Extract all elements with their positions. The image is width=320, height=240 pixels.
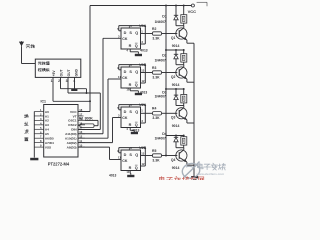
- svg-text:D1: D1: [162, 15, 167, 19]
- node rail top: [165, 5, 167, 7]
- IC1 left pin stub 3: [34, 119, 43, 121]
- VCC terminal: [191, 4, 194, 7]
- svg-text:D2: D2: [162, 54, 167, 58]
- wire VCC rail vertical: [89, 6, 91, 112]
- ground U2B: [127, 175, 134, 177]
- svg-text:1N4007: 1N4007: [155, 59, 166, 63]
- wire U2B feedback Qbar to D: [119, 147, 146, 149]
- wire top right corner artifact: [197, 1, 207, 3]
- IC1 left pin stub 9: [34, 146, 43, 148]
- IC1 left pin stub 4: [34, 124, 43, 126]
- U1A S pin stub: [128, 26, 130, 28]
- IC1 left pin stub 2: [34, 115, 43, 117]
- wire U2B R pin to ground: [129, 171, 131, 174]
- svg-text:3.3K: 3.3K: [152, 116, 160, 120]
- svg-text:R2: R2: [152, 27, 156, 31]
- wire DIN vertical: [99, 93, 101, 130]
- svg-text:A5: A5: [45, 132, 49, 136]
- ground U1A: [135, 54, 142, 56]
- svg-text:GND: GND: [75, 68, 79, 76]
- wire stage2 collector node: [176, 64, 184, 66]
- wire module pin2 OUT: [60, 77, 62, 88]
- svg-text:Q2: Q2: [171, 75, 176, 79]
- wire address common vertical: [33, 112, 35, 158]
- svg-text:CK: CK: [122, 37, 128, 41]
- wire R1 to OSC1 pin16: [94, 125, 98, 127]
- wire bus D0 pin13 to U1A CK: [78, 133, 103, 135]
- U1B S pin stub: [128, 65, 130, 67]
- transistor Q3: [176, 108, 187, 119]
- IC1 right pin stub 15: [78, 124, 85, 126]
- module label 控模块: [38, 68, 49, 71]
- wire top VCC horizontal: [90, 5, 191, 7]
- transistor Q1: [176, 28, 187, 39]
- IC1 right pin stub 12: [78, 137, 85, 139]
- diode D3: [175, 89, 177, 95]
- receiver module box: [35, 59, 81, 77]
- svg-text:A1: A1: [45, 114, 49, 118]
- IC1 right pin stub 10: [78, 146, 85, 148]
- IC1 left pin stub 8: [34, 142, 43, 144]
- U2A S pin stub: [128, 105, 130, 107]
- relay K3: [183, 89, 185, 95]
- svg-text:IC1: IC1: [41, 99, 47, 103]
- svg-text:2: 2: [58, 79, 60, 83]
- node stage1 relay top: [183, 5, 185, 7]
- svg-text:D: D: [124, 70, 127, 74]
- transistor Q2: [176, 67, 187, 78]
- IC1 right pin stub 13: [78, 133, 85, 135]
- svg-text:18: 18: [79, 108, 82, 112]
- IC1 right pin stub 16: [78, 119, 85, 121]
- svg-text:CK: CK: [122, 76, 128, 80]
- flip-flop U1A box: [121, 28, 141, 49]
- wire module pin1 +5V: [52, 77, 54, 101]
- svg-text:9014: 9014: [172, 166, 180, 170]
- svg-text:R5: R5: [152, 149, 156, 153]
- svg-text:R: R: [129, 44, 132, 48]
- svg-text:D4: D4: [162, 132, 167, 136]
- wire R1 to OSC2 pin15: [78, 124, 80, 126]
- wire left VCC distribution rail: [165, 6, 167, 136]
- svg-text:Q: Q: [135, 123, 138, 127]
- node stage1 diode top: [175, 5, 177, 7]
- wire antenna to module: [21, 46, 23, 63]
- wire stage2 top: [166, 49, 184, 51]
- node rail stage3: [165, 88, 167, 90]
- svg-text:S: S: [129, 153, 132, 157]
- svg-text:Q3: Q3: [171, 116, 176, 120]
- wire U2A feedback Qbar to D: [119, 104, 146, 106]
- svg-text:9014: 9014: [172, 124, 180, 128]
- svg-text:S: S: [129, 110, 132, 114]
- svg-text:4013: 4013: [140, 49, 148, 53]
- wire U2B Q output: [141, 155, 153, 157]
- watermark text 电子发烧友: [198, 163, 233, 170]
- svg-text:1N4007: 1N4007: [155, 94, 166, 98]
- IC1 right pin stub 17: [78, 115, 84, 117]
- svg-text:D: D: [124, 153, 127, 157]
- svg-text:A2: A2: [45, 119, 49, 123]
- label 地址设置: [24, 114, 28, 117]
- svg-text:R: R: [129, 83, 132, 87]
- svg-text:3.3K: 3.3K: [152, 36, 160, 40]
- IC1 right pin stub 14: [78, 128, 85, 130]
- svg-text:4013: 4013: [109, 174, 117, 178]
- svg-text:1N4007: 1N4007: [155, 137, 166, 141]
- IC1 left pin stub 7: [34, 137, 43, 139]
- relay K1: [183, 6, 185, 15]
- relay K2: [183, 50, 185, 54]
- ground rail symbol: [191, 176, 198, 178]
- IC1 left pin stub 1: [34, 111, 43, 113]
- svg-text:A6/D5: A6/D5: [45, 137, 54, 141]
- flip-flop U2A box: [121, 107, 141, 128]
- red caption bottom: [159, 176, 203, 183]
- relay K4: [183, 136, 185, 137]
- svg-text:D: D: [124, 31, 127, 35]
- wire U2A Q output: [141, 112, 153, 114]
- resistor R5: [153, 154, 162, 157]
- wire stage3 top: [166, 88, 184, 90]
- U2B S pin stub: [128, 148, 130, 150]
- svg-text:12: 12: [142, 79, 145, 83]
- antenna label 天线: [26, 44, 35, 48]
- svg-text:VT: VT: [73, 114, 77, 118]
- svg-text:OUT: OUT: [60, 69, 64, 76]
- wire U1B Q output: [141, 72, 153, 74]
- node stage2 relay top: [183, 49, 185, 51]
- resistor R2: [153, 32, 162, 35]
- svg-text:+5V: +5V: [52, 70, 56, 77]
- IC1 left pin stub 6: [34, 133, 43, 135]
- svg-text:S: S: [129, 70, 132, 74]
- svg-text:A0: A0: [45, 110, 49, 114]
- resistor R1: [80, 124, 94, 128]
- svg-text:3.3K: 3.3K: [152, 158, 160, 162]
- wire stage4 collector node: [176, 147, 184, 149]
- svg-text:13: 13: [141, 69, 144, 73]
- IC1 left pin stub 5: [34, 128, 43, 130]
- svg-text:Q: Q: [135, 110, 138, 114]
- svg-text:CK: CK: [122, 116, 128, 120]
- svg-text:9014: 9014: [172, 44, 180, 48]
- svg-text:DIN: DIN: [71, 128, 77, 132]
- svg-text:1: 1: [51, 79, 53, 83]
- wire stage4 top: [166, 135, 184, 137]
- wire module pin4 GND: [74, 77, 76, 88]
- diode D1: [175, 6, 177, 16]
- svg-text:Q: Q: [135, 70, 138, 74]
- flip-flop U2B box: [121, 150, 141, 171]
- svg-text:CK: CK: [122, 159, 128, 163]
- wire stage1 collector node: [176, 25, 184, 27]
- resistor R3: [153, 71, 162, 74]
- wire U1A Q output: [141, 33, 153, 35]
- svg-text:VSS: VSS: [45, 145, 51, 149]
- wire bus D3 pin10 to U2B CK: [78, 146, 110, 148]
- diode D4: [175, 136, 177, 138]
- node stage3 diode top: [175, 88, 177, 90]
- svg-text:VCC: VCC: [70, 110, 77, 114]
- svg-text:13: 13: [141, 152, 144, 156]
- svg-text:OSC2: OSC2: [68, 123, 77, 127]
- IC1 right pin stub 18: [78, 111, 85, 113]
- svg-text:R4: R4: [152, 107, 156, 111]
- svg-text:1N4007: 1N4007: [155, 20, 166, 24]
- wire R3 to base: [162, 72, 178, 74]
- node stage4 diode top: [175, 135, 177, 137]
- svg-text:A11(D0): A11(D0): [65, 132, 77, 136]
- wire emitter ground rail: [193, 43, 195, 176]
- ground module: [71, 89, 77, 91]
- svg-text:OUT: OUT: [67, 69, 71, 76]
- svg-text:A8(D3): A8(D3): [67, 145, 77, 149]
- module label 无线遥: [38, 62, 49, 65]
- node rail stage2: [165, 49, 167, 51]
- wire U2A R pin to ground: [129, 128, 131, 131]
- svg-text:3.3K: 3.3K: [152, 75, 160, 79]
- svg-text:Q4: Q4: [171, 158, 176, 162]
- svg-text:3: 3: [66, 79, 68, 83]
- IC1 box: [44, 105, 78, 158]
- transistor Q4: [176, 150, 187, 161]
- IC1 right pin stub 11: [78, 142, 85, 144]
- node pin1-vcc junction: [89, 100, 91, 102]
- svg-text:D: D: [124, 110, 127, 114]
- flip-flop U1B box: [121, 67, 141, 88]
- wire U1A R pin to ground: [129, 49, 131, 52]
- svg-text:R1 300K: R1 300K: [79, 117, 93, 121]
- wire U1B feedback Qbar to D: [119, 64, 146, 66]
- svg-text:A10(D1): A10(D1): [65, 137, 77, 141]
- wire R4 to base: [162, 112, 178, 114]
- svg-text:Q: Q: [135, 166, 138, 170]
- svg-text:S: S: [129, 31, 132, 35]
- svg-text:A4: A4: [45, 128, 49, 132]
- watermark logo swirl: [181, 162, 202, 181]
- svg-text:Q1: Q1: [171, 36, 176, 40]
- svg-text:www.elecfans.com: www.elecfans.com: [196, 172, 225, 176]
- wire bus D2 pin11 to U2A CK: [78, 142, 113, 144]
- svg-text:R3: R3: [152, 66, 156, 70]
- svg-text:4013: 4013: [140, 90, 148, 94]
- svg-text:OSC1: OSC1: [68, 119, 77, 123]
- svg-text:Q: Q: [135, 31, 138, 35]
- diode D2: [175, 50, 177, 54]
- node stage2 diode top: [175, 49, 177, 51]
- svg-text:R: R: [129, 166, 132, 170]
- svg-text:R: R: [129, 123, 132, 127]
- svg-text:A9(D2): A9(D2): [67, 141, 77, 145]
- svg-text:A3: A3: [45, 123, 49, 127]
- svg-text:12: 12: [142, 162, 145, 166]
- svg-text:VCC: VCC: [188, 9, 197, 14]
- svg-text:A7/D4: A7/D4: [45, 141, 54, 145]
- wire VCC to IC pin18: [78, 111, 90, 113]
- wire stage3 collector node: [176, 105, 184, 107]
- wire rail extension stage4: [165, 136, 167, 156]
- wire module pin3 OUT: [67, 77, 69, 93]
- svg-text:PT2272-M4: PT2272-M4: [48, 161, 70, 166]
- node out junction: [86, 92, 88, 94]
- wire U1B R pin to ground: [129, 88, 131, 91]
- ground address pins: [30, 158, 38, 161]
- svg-text:Q: Q: [135, 153, 138, 157]
- node stage4 relay top: [183, 135, 185, 137]
- node stage3 relay top: [183, 88, 185, 90]
- wire U1A feedback Qbar to D: [119, 25, 146, 27]
- node rail stage4 base: [165, 155, 167, 157]
- ground U1B: [135, 93, 142, 95]
- ground U2A: [131, 132, 138, 134]
- wire R5 to base: [162, 155, 178, 157]
- wire R2 to base: [162, 33, 178, 35]
- svg-text:4013: 4013: [132, 128, 140, 132]
- resistor R4: [153, 112, 162, 115]
- svg-text:Q: Q: [135, 44, 138, 48]
- svg-text:9014: 9014: [172, 83, 180, 87]
- antenna: [19, 41, 24, 46]
- svg-text:10: 10: [126, 170, 129, 174]
- svg-text:Q: Q: [135, 83, 138, 87]
- wire bus D1 pin12 to U1B CK: [78, 137, 108, 139]
- svg-text:10: 10: [126, 87, 129, 91]
